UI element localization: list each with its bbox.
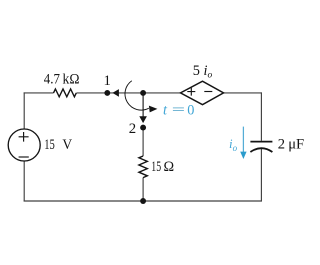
resistor R1 4.7 kOhm [54, 89, 77, 97]
minus sign of source [19, 156, 29, 158]
svg-text:0: 0 [187, 103, 194, 119]
plus sign inside diamond [187, 88, 195, 96]
svg-text:μF: μF [288, 137, 304, 153]
resistor R2 15 Ohm [139, 156, 147, 178]
wire left side lower [23, 161, 25, 201]
wire right side upper [260, 92, 262, 140]
capacitor C1 top plate [250, 141, 272, 143]
wire node 2 to resistor R2 [142, 128, 144, 156]
svg-text:1: 1 [104, 73, 111, 89]
svg-text:2: 2 [129, 121, 136, 137]
svg-text:kΩ: kΩ [63, 72, 80, 88]
switch contact arrowhead at position 2 [139, 116, 147, 123]
switch motion arc t=0 [125, 81, 149, 110]
plus sign of source [19, 132, 29, 142]
arc arrowhead [149, 106, 158, 113]
wire left side upper [23, 92, 25, 129]
wire diamond to top-right corner [224, 92, 262, 94]
wire resistor R2 to bottom [142, 178, 144, 201]
capacitor C1 curved plate [250, 148, 272, 152]
voltage source V1 circle [8, 129, 40, 161]
svg-text:15: 15 [44, 137, 55, 153]
bottom junction dot [140, 198, 146, 204]
node 1 dot [104, 90, 110, 96]
wire node 1 to pivot to diamond [107, 92, 180, 94]
switch contact arrowhead at position 1 [112, 89, 119, 97]
wire top-left segment [24, 92, 54, 94]
node 2 dot [140, 125, 146, 131]
dependent source U1 diamond [181, 81, 224, 104]
svg-text:Ω: Ω [164, 159, 175, 175]
wire resistor R1 to node 1 [76, 92, 107, 94]
current arrow i_o [242, 127, 244, 153]
svg-text:4.7: 4.7 [44, 72, 60, 88]
switch pivot dot [140, 90, 146, 96]
minus sign inside diamond [204, 91, 212, 93]
svg-text:2: 2 [278, 137, 285, 153]
svg-text:V: V [62, 137, 72, 153]
switch blade toward node 2 [142, 93, 144, 117]
svg-text:15: 15 [151, 159, 161, 175]
wire bottom [24, 200, 262, 202]
wire right side lower [260, 149, 262, 202]
